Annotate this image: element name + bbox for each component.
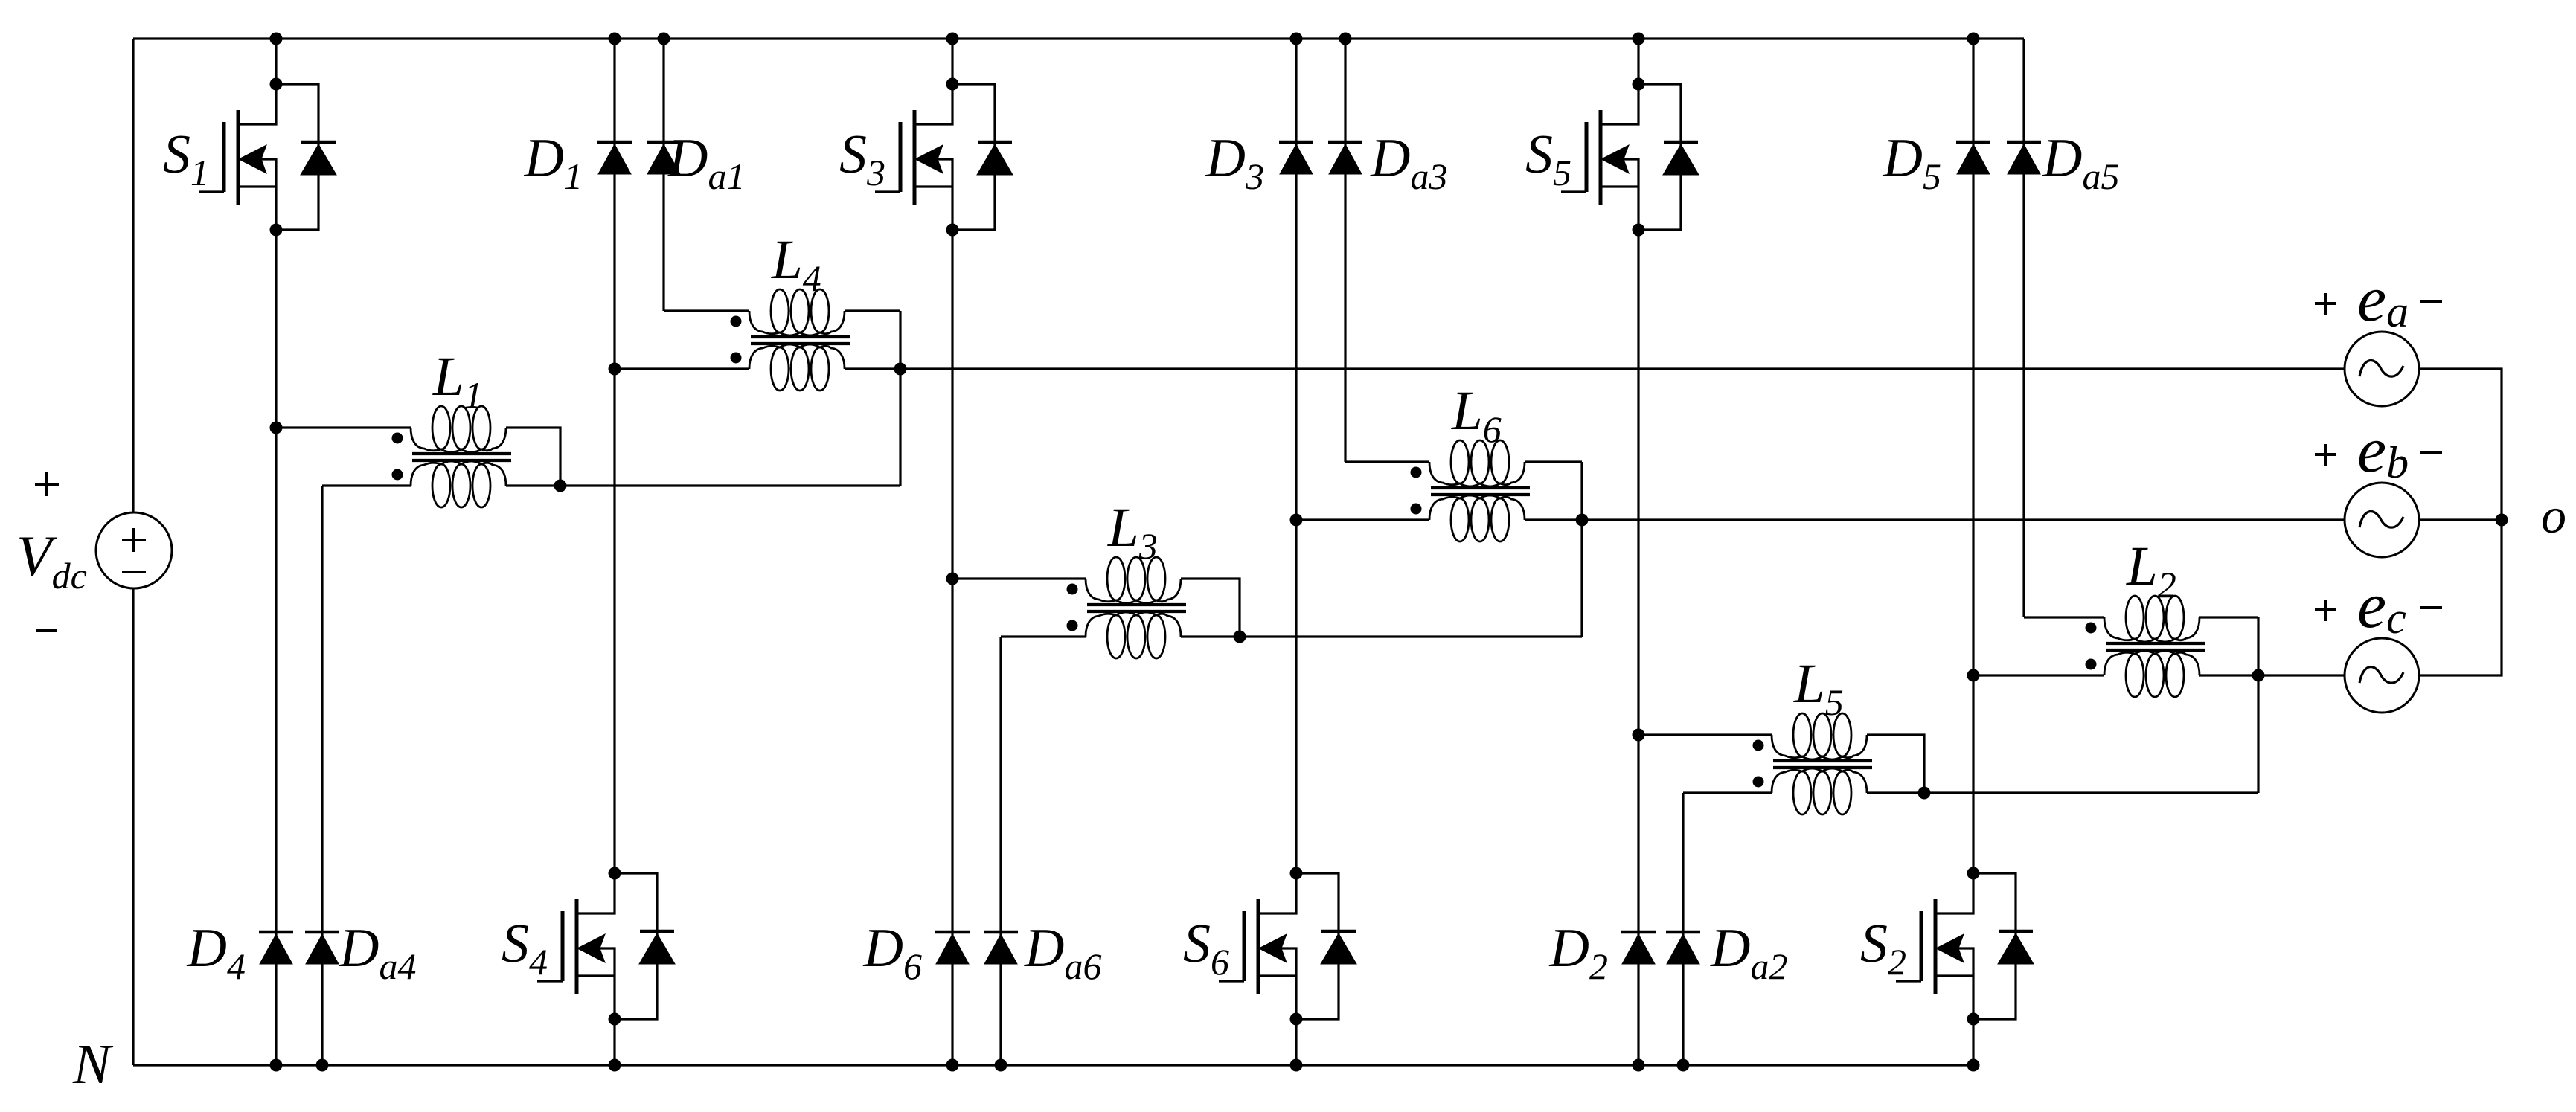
wire left DC link upper: [132, 39, 134, 512]
coupled inductor L3: [1067, 497, 1187, 658]
wire L5 top exit: [1867, 735, 1924, 793]
wire L4 top exit: [845, 309, 900, 312]
coupled inductor L1: [392, 346, 512, 507]
wire L4 bottom entry: [615, 367, 749, 370]
node L6 bottom entry: [1290, 514, 1303, 527]
wire D1 leg upper: [609, 33, 621, 370]
source ea: [2345, 332, 2419, 406]
wire top rail to S3 drain: [946, 33, 959, 85]
wire Da1 to L4 top entry: [664, 309, 749, 312]
wire D1 leg to S4: [613, 369, 615, 873]
label Vdc: [16, 524, 87, 597]
coupled inductor L5: [1753, 653, 1873, 814]
diode Da1: [647, 128, 745, 197]
source eb: [2345, 483, 2419, 557]
node L3 top entry: [946, 573, 959, 585]
node L1 output: [554, 480, 567, 492]
wire L6 top exit: [1525, 460, 1582, 463]
wire Da1 branch: [658, 33, 670, 312]
wire ec to o: [2419, 520, 2502, 675]
diode D5: [1883, 128, 1990, 197]
node L5 output: [1918, 787, 1931, 800]
node X_a phase a junction: [894, 363, 907, 376]
wire top DC rail: [133, 37, 2024, 39]
wire top rail to S1 drain: [270, 33, 283, 85]
wire D5 leg upper: [1967, 33, 1980, 676]
diode D6: [863, 918, 970, 987]
node L2 bottom entry: [1967, 669, 1980, 682]
wire X_a vertical: [899, 311, 901, 486]
wire L1 bottom entry: [322, 484, 411, 486]
node L4 bottom entry: [609, 363, 621, 376]
voltage source Vdc: [96, 512, 172, 588]
wire Da4 branch: [316, 486, 329, 1072]
svg-text:N: N: [72, 1033, 114, 1096]
wire phase c line: [2199, 674, 2345, 676]
node X_c phase c junction: [2252, 669, 2265, 682]
wire L5 top entry: [1638, 733, 1772, 736]
wire Da3 branch: [1339, 33, 1352, 463]
transistor S1: [163, 78, 336, 237]
wire S6 source to N: [1290, 1019, 1303, 1072]
wire L3 output to phase b: [1181, 635, 1582, 637]
coupled inductor L6: [1411, 380, 1531, 541]
wire D3 leg upper: [1290, 33, 1303, 521]
wire X_c vertical: [2257, 617, 2259, 793]
node L5 top entry: [1633, 729, 1645, 742]
node X_b phase b junction: [1576, 514, 1589, 527]
transistor S4: [502, 867, 675, 1026]
wire ea to o: [2419, 369, 2502, 520]
wire eb to o: [2419, 518, 2502, 521]
diode D2: [1549, 918, 1656, 987]
diode D4: [187, 918, 293, 987]
node N label: [72, 1033, 114, 1096]
source ec: [2345, 638, 2419, 713]
wire D3 leg to S6: [1295, 520, 1297, 873]
label eb: [2315, 414, 2442, 487]
diode Da5: [2007, 128, 2119, 197]
label Vdc plus: [35, 472, 59, 496]
coupled inductor L2: [2086, 536, 2205, 697]
transistor S5: [1525, 78, 1699, 237]
wire L1 output to phase a: [506, 484, 900, 486]
wire Da2 branch: [1677, 793, 1690, 1072]
wire phase a line: [845, 367, 2345, 370]
diode Da4: [305, 918, 416, 987]
wire L6 bottom entry: [1296, 518, 1429, 521]
wire S5 source to L5 node: [1637, 230, 1639, 735]
coupled inductor L4: [731, 229, 850, 391]
wire S1 leg to N through D4: [270, 428, 283, 1072]
diode Da2: [1666, 918, 1787, 987]
wire S3 leg to N through D6: [946, 579, 959, 1072]
diode D1: [524, 128, 632, 197]
label ea: [2315, 263, 2442, 336]
wire S2 source to N: [1967, 1019, 1980, 1072]
wire S4 source to N: [609, 1019, 621, 1072]
transistor S6: [1183, 867, 1356, 1026]
wire L5 output to phase c: [1867, 791, 2258, 794]
label ec: [2315, 570, 2442, 643]
transistor S2: [1860, 867, 2034, 1026]
wire L1 top exit: [506, 428, 560, 486]
wire left DC link lower: [132, 588, 134, 1065]
wire L1 top entry: [276, 426, 411, 428]
diode Da3: [1328, 128, 1447, 197]
wire Da5 branch: [2022, 39, 2025, 617]
transistor S3: [839, 78, 1013, 237]
svg-text:o: o: [2541, 487, 2566, 544]
wire Da3 to L6 top entry: [1345, 460, 1429, 463]
wire top rail to S5 drain: [1633, 33, 1645, 85]
wire L3 top exit: [1181, 579, 1240, 637]
wire S5 leg to N through D2: [1633, 735, 1645, 1072]
diode D3: [1205, 128, 1313, 197]
wire S3 source to L3 node: [951, 230, 953, 579]
wire bottom rail N: [133, 1064, 1973, 1066]
wire L3 top entry: [952, 577, 1086, 579]
wire Da5 to L2 top entry: [2024, 616, 2104, 618]
wire Da6 branch: [995, 637, 1007, 1072]
wire L3 bottom entry: [1001, 635, 1086, 637]
wire L2 bottom entry: [1973, 674, 2104, 676]
wire D5 leg to S2: [1972, 675, 1974, 873]
label Vdc minus: [36, 629, 57, 632]
wire S1 source to L1 node: [275, 230, 277, 428]
wire L2 top exit: [2199, 616, 2258, 618]
node L1 top entry: [270, 422, 283, 434]
node L3 output: [1234, 631, 1246, 643]
node o: [2496, 487, 2567, 544]
wire X_b vertical: [1580, 462, 1583, 637]
wire phase b line: [1525, 518, 2345, 521]
diode Da6: [984, 918, 1101, 987]
wire L5 bottom entry: [1683, 791, 1772, 794]
